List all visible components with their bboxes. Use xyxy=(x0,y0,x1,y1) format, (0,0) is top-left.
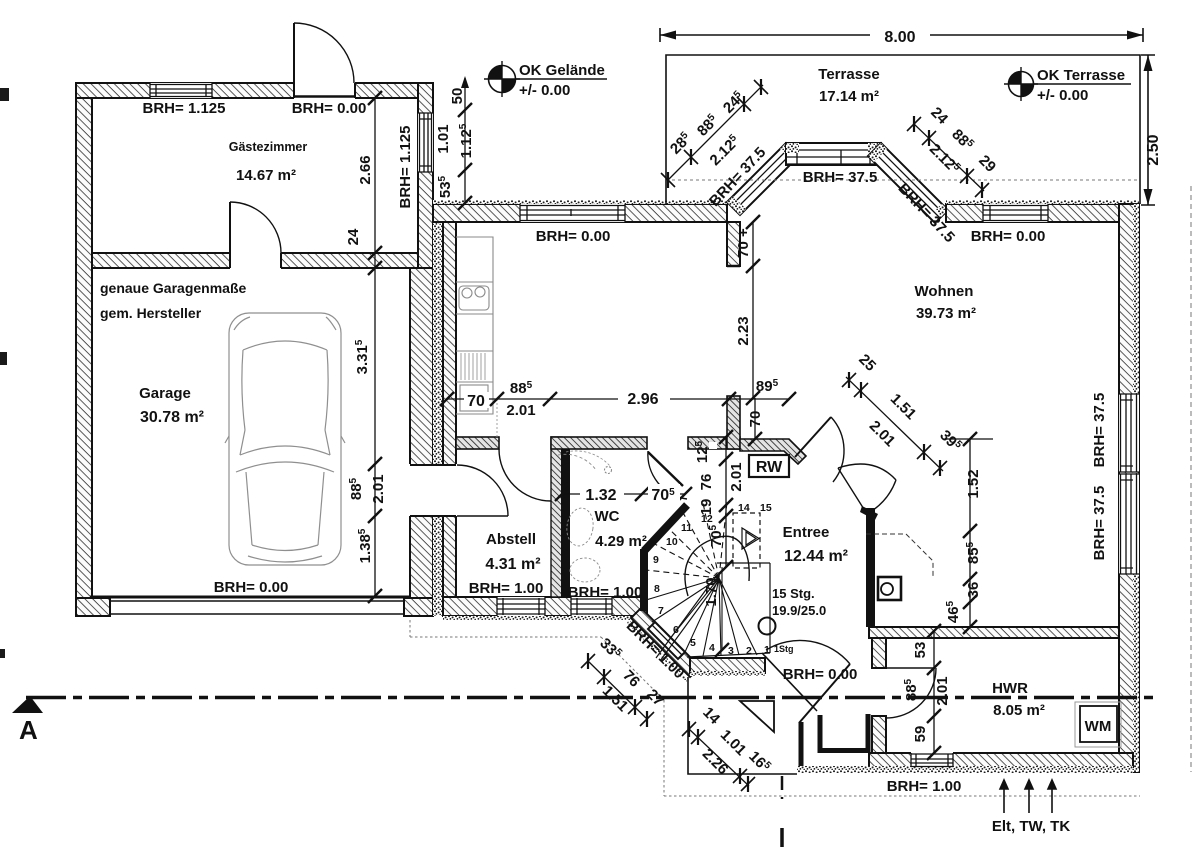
svg-text:15: 15 xyxy=(760,502,772,514)
svg-text:OK Terrasse: OK Terrasse xyxy=(1037,67,1125,84)
svg-text:1.70: 1.70 xyxy=(703,577,720,606)
svg-text:8.05 m²: 8.05 m² xyxy=(993,702,1045,719)
svg-text:2.01: 2.01 xyxy=(934,676,951,705)
wall divider gaestezimmer/garage xyxy=(92,253,418,268)
door D6 double door entree-wohnen xyxy=(795,417,831,457)
svg-text:2.01: 2.01 xyxy=(506,402,535,419)
door D8 HWR arc xyxy=(886,668,936,718)
wall garage bottom corner left xyxy=(76,598,110,616)
svg-text:2.50: 2.50 xyxy=(1145,134,1162,165)
wall garage bottom corner right xyxy=(404,598,433,616)
svg-text:Abstell: Abstell xyxy=(486,531,536,548)
door opening D2 gaeste-garage xyxy=(230,252,281,269)
svg-text:2.01: 2.01 xyxy=(370,474,387,503)
wall garage right exterior lower xyxy=(410,268,433,616)
svg-text:BRH= 1.125: BRH= 1.125 xyxy=(143,100,226,117)
entree wardrobe dashed xyxy=(558,454,596,470)
stair flight boundary xyxy=(687,563,770,657)
svg-text:8.00: 8.00 xyxy=(884,29,915,46)
wall gaestezimmer top exterior xyxy=(76,83,433,98)
window W3 kitchen top xyxy=(520,204,625,222)
window gaestezimmer top W1 xyxy=(150,83,212,98)
svg-text:2.23: 2.23 xyxy=(735,316,752,345)
svg-text:BRH= 1.00: BRH= 1.00 xyxy=(568,584,643,601)
svg-text:Terrasse: Terrasse xyxy=(818,66,879,83)
svg-text:30.78 m²: 30.78 m² xyxy=(140,409,204,426)
window W9 abstell bottom xyxy=(497,597,545,616)
svg-text:Gästezimmer: Gästezimmer xyxy=(229,140,308,154)
svg-text:19.9/25.0: 19.9/25.0 xyxy=(772,603,826,618)
svg-text:BRH= 1.00: BRH= 1.00 xyxy=(469,580,544,597)
svg-text:OK Gelände: OK Gelände xyxy=(519,62,605,79)
RW box xyxy=(749,455,789,477)
svg-text:A: A xyxy=(19,715,38,745)
svg-text:BRH= 37.5: BRH= 37.5 xyxy=(803,169,878,186)
svg-text:9: 9 xyxy=(653,554,659,566)
svg-text:19: 19 xyxy=(698,499,715,516)
stair stringer double line xyxy=(656,576,720,661)
svg-text:11: 11 xyxy=(681,522,692,534)
svg-text:17.14 m²: 17.14 m² xyxy=(819,88,879,105)
svg-text:4.31 m²: 4.31 m² xyxy=(485,556,540,573)
svg-text:14.67 m²: 14.67 m² xyxy=(236,167,296,184)
entrance triangle xyxy=(740,701,774,732)
wall house right exterior xyxy=(1119,204,1139,772)
door D7 entrance leaf+arc xyxy=(762,653,817,711)
wall entree east xyxy=(866,508,875,627)
window W6 right wall upper xyxy=(1119,394,1139,472)
svg-text:7: 7 xyxy=(658,605,664,617)
section line vertical at entrance xyxy=(781,776,784,799)
svg-text:50: 50 xyxy=(449,88,466,105)
svg-text:+/- 0.00: +/- 0.00 xyxy=(1037,87,1088,104)
door D4 abstell arc xyxy=(499,449,551,501)
svg-text:WM: WM xyxy=(1085,718,1112,735)
svg-text:1: 1 xyxy=(764,644,770,656)
svg-text:3: 3 xyxy=(728,645,734,657)
wall HWR top xyxy=(869,627,1119,638)
svg-text:70 +: 70 + xyxy=(735,228,752,258)
wall HWR bottom exterior xyxy=(869,753,1133,767)
svg-text:genaue Garagenmaße: genaue Garagenmaße xyxy=(100,280,246,296)
wall hall bottom piece xyxy=(456,437,499,449)
bay flat top window wall xyxy=(786,143,881,165)
wall house left exterior xyxy=(443,204,456,616)
svg-text:gem. Hersteller: gem. Hersteller xyxy=(100,305,202,321)
wall HWR left lower xyxy=(872,716,886,753)
svg-text:12.44 m²: 12.44 m² xyxy=(784,548,848,565)
window W5 top right xyxy=(983,204,1048,222)
stair column xyxy=(759,618,776,635)
wall wc top xyxy=(551,437,647,449)
svg-text:BRH= 0.00: BRH= 0.00 xyxy=(214,579,289,596)
wall gaestezimmer right exterior upper xyxy=(418,83,433,268)
svg-text:HWR: HWR xyxy=(992,680,1028,697)
svg-text:14: 14 xyxy=(738,502,750,514)
svg-text:BRH= 1.00: BRH= 1.00 xyxy=(887,778,962,795)
porch U wall xyxy=(820,714,868,751)
svg-text:2.66: 2.66 xyxy=(357,155,374,184)
window W8 HWR bottom xyxy=(911,752,953,767)
stair dashed up-box xyxy=(733,513,760,568)
svg-text:RW: RW xyxy=(756,459,783,476)
svg-text:BRH= 37.5: BRH= 37.5 xyxy=(1091,486,1108,561)
garage interior bottom edge xyxy=(90,596,410,599)
svg-text:4: 4 xyxy=(709,642,715,654)
svg-text:70: 70 xyxy=(747,411,764,428)
stair walking line xyxy=(685,536,749,596)
door D5 wc leaf+arc xyxy=(648,452,683,486)
svg-text:5: 5 xyxy=(690,637,696,649)
wall abstell/wc divider xyxy=(551,437,562,597)
chimney xyxy=(866,534,933,600)
svg-text:36: 36 xyxy=(965,582,982,599)
section triangle A xyxy=(12,696,43,713)
wc washbasin xyxy=(564,506,595,547)
car in garage xyxy=(225,313,345,565)
svg-text:WC: WC xyxy=(595,508,620,525)
scan specks left margin xyxy=(0,88,9,101)
svg-text:BRH= 37.5: BRH= 37.5 xyxy=(1091,393,1108,468)
stair numbers xyxy=(653,502,794,657)
svg-text:Garage: Garage xyxy=(139,385,191,402)
door D1 leaf+arc gaestezimmer entry xyxy=(293,23,295,83)
svg-text:4.29 m²: 4.29 m² xyxy=(595,533,647,550)
svg-text:2.96: 2.96 xyxy=(627,391,658,408)
wall entrance band B xyxy=(690,658,765,673)
wall entree NW stub xyxy=(727,396,740,449)
wall bay stub left (70) xyxy=(727,222,740,266)
WM box xyxy=(1075,702,1121,747)
svg-text:BRH= 0.00: BRH= 0.00 xyxy=(292,100,367,117)
wall garage left exterior xyxy=(76,83,92,612)
door opening D1 gaestezimmer entry xyxy=(294,82,355,99)
garage sectional door xyxy=(110,601,404,614)
bay left diagonal window wall xyxy=(727,143,799,215)
wall house top left segment xyxy=(433,204,727,222)
svg-text:BRH= 0.00: BRH= 0.00 xyxy=(536,228,611,245)
svg-text:BRH= 0.00: BRH= 0.00 xyxy=(783,666,858,683)
wall stair diagonal exterior with window xyxy=(627,608,700,682)
OK Terrasse symbol xyxy=(1004,67,1131,104)
svg-text:BRH= 1.125: BRH= 1.125 xyxy=(397,126,414,209)
svg-text:8: 8 xyxy=(654,583,660,595)
svg-text:6: 6 xyxy=(673,624,679,636)
door D3 garage-hall arc xyxy=(457,465,508,516)
window W7 right wall lower xyxy=(1119,474,1139,574)
svg-text:10: 10 xyxy=(666,536,678,548)
stair treads lower solid xyxy=(646,578,757,656)
wall stair left vertical xyxy=(640,549,648,611)
svg-text:76: 76 xyxy=(698,474,715,491)
porch thick wall vertical xyxy=(799,722,804,766)
svg-text:2: 2 xyxy=(746,645,752,657)
wall stair top xyxy=(688,437,740,449)
wall house top right segment xyxy=(946,204,1139,222)
porch thin outline xyxy=(688,677,797,774)
svg-text:1Stg: 1Stg xyxy=(774,644,794,654)
svg-text:Entree: Entree xyxy=(783,524,830,541)
stipple band between garage and house xyxy=(433,204,443,616)
wall HWR left upper xyxy=(872,638,886,668)
wall wc diagonal xyxy=(644,505,687,551)
bay right diagonal window wall xyxy=(868,143,948,223)
stair direction triangles xyxy=(742,528,759,549)
svg-text:53: 53 xyxy=(912,642,929,659)
door D2 leaf+arc gaeste-garage xyxy=(229,202,231,253)
window W10 wc bottom xyxy=(571,597,612,616)
svg-text:59: 59 xyxy=(912,726,929,743)
svg-text:2.01: 2.01 xyxy=(728,462,745,491)
svg-text:15 Stg.: 15 Stg. xyxy=(772,586,815,601)
svg-text:70: 70 xyxy=(467,393,485,410)
OK Gelaende symbol xyxy=(484,61,607,99)
svg-text:+/- 0.00: +/- 0.00 xyxy=(519,82,570,99)
svg-text:39.73 m²: 39.73 m² xyxy=(916,305,976,322)
wall above RW box xyxy=(740,439,806,464)
svg-text:1.01: 1.01 xyxy=(435,124,452,153)
svg-text:24: 24 xyxy=(345,228,362,245)
svg-text:Wohnen: Wohnen xyxy=(915,283,974,300)
stair treads upper dashed xyxy=(646,502,727,578)
door opening D3 garage-hall through double wall xyxy=(409,464,457,516)
window gaestezimmer right W2 xyxy=(418,113,433,172)
svg-text:1.32: 1.32 xyxy=(585,487,616,504)
svg-text:1.52: 1.52 xyxy=(965,469,982,498)
svg-text:BRH= 0.00: BRH= 0.00 xyxy=(971,228,1046,245)
svg-text:Elt, TW, TK: Elt, TW, TK xyxy=(992,818,1070,835)
kitchen counter xyxy=(456,237,493,414)
wall abstell/wc bottom exterior xyxy=(443,597,647,616)
